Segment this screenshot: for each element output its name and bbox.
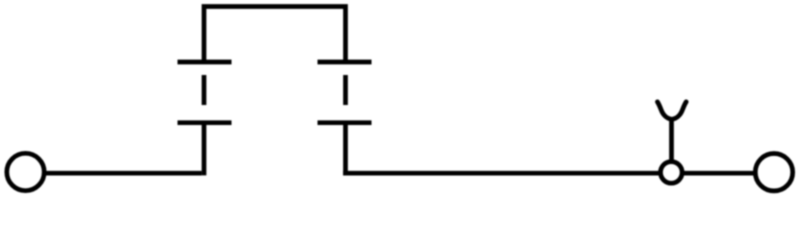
wire: left terminal to disconnect contact 1	[45, 171, 202, 176]
wire: riser under disconnect contact 1	[202, 123, 207, 176]
wire: contact 2 to test point	[343, 171, 660, 176]
right terminal circle	[755, 154, 792, 191]
wire: bridge jumper over contacts	[204, 7, 346, 63]
wire: riser under disconnect contact 2	[343, 123, 348, 176]
disconnect contact 2 bottom bar	[318, 120, 372, 125]
wire: test point to right terminal	[682, 171, 755, 176]
disconnect contact 1 plug dash	[202, 75, 207, 105]
left terminal circle	[7, 153, 44, 190]
test point circle	[661, 162, 683, 184]
test socket fork	[657, 102, 686, 120]
test socket stem	[669, 118, 674, 162]
disconnect contact 2 top bar	[318, 60, 372, 65]
disconnect contact 2 plug dash	[343, 75, 348, 105]
disconnect contact 1 top bar	[178, 60, 232, 65]
disconnect contact 1 bottom bar	[178, 120, 232, 125]
